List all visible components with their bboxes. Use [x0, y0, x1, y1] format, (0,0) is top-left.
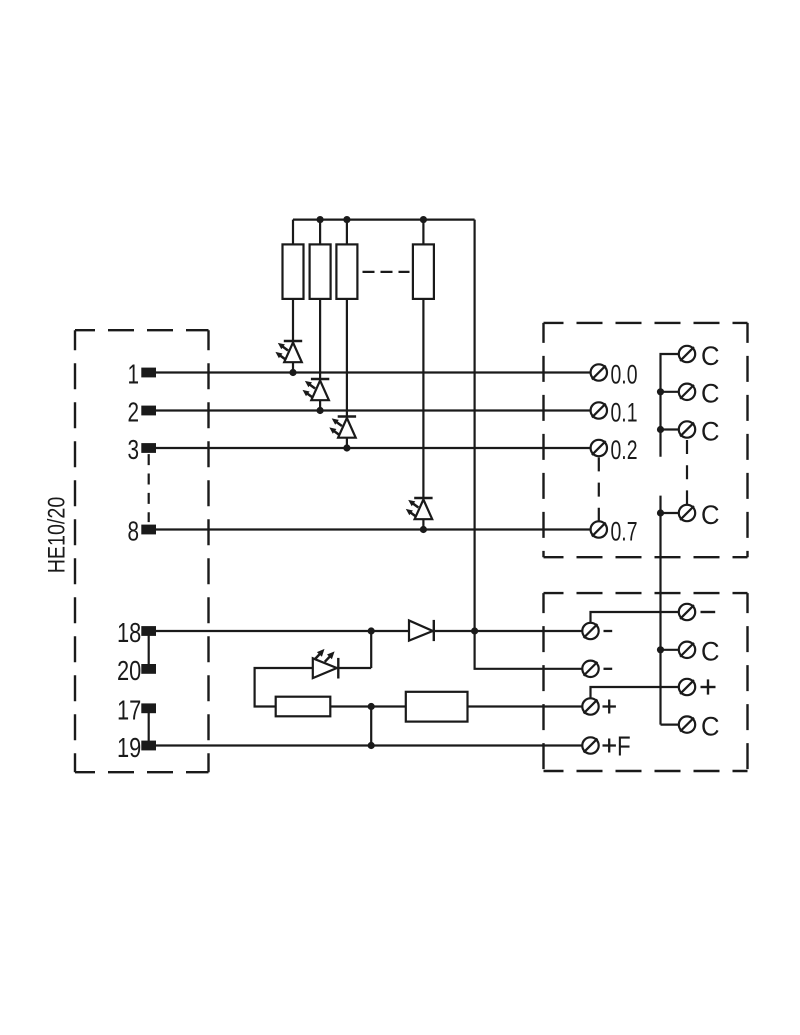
- svg-text:0.2: 0.2: [611, 435, 638, 465]
- wire rail to C2: [661, 391, 679, 393]
- terminal C1: [679, 346, 695, 362]
- node rail-C5 junction: [657, 646, 664, 653]
- node LED branch junction: [368, 627, 375, 634]
- svg-text:C: C: [701, 378, 720, 409]
- terminal 0.0: [591, 364, 607, 380]
- svg-text:0.1: 0.1: [611, 397, 638, 427]
- wire LED anode elbow: [255, 668, 313, 707]
- connector HE10/20 box: [75, 330, 209, 772]
- terminal 0.1: [591, 402, 607, 418]
- node pin19 wire junction: [368, 742, 375, 749]
- resistor R2: [310, 244, 331, 299]
- wire C rail upper segment: [661, 354, 679, 457]
- wire pin8 to terminal 0.7: [156, 528, 591, 530]
- wire pin2 to terminal 0.1: [156, 409, 591, 411]
- wire R1 to LED1: [292, 299, 294, 342]
- pin 2: [141, 406, 156, 416]
- LED V2 on input 2: [311, 378, 329, 380]
- fuse F1: [406, 692, 468, 722]
- wire pin18 to terminal minus: [156, 630, 582, 632]
- dashed continuation between R3 and R4: [363, 271, 410, 273]
- wire rail to C4: [661, 512, 679, 514]
- LED V3 on input 3: [338, 415, 356, 417]
- pin 3: [141, 443, 156, 453]
- wire R4 to LED4: [422, 299, 424, 499]
- terminal C4: [679, 505, 695, 521]
- wire resistor to fuse to terminal plus: [330, 705, 582, 707]
- label minus1: [604, 630, 613, 632]
- pin 1: [141, 368, 156, 378]
- svg-text:HE10/20: HE10/20: [43, 497, 70, 574]
- wire LED cathode to junction: [338, 667, 371, 669]
- wire pin3 to terminal 0.2: [156, 447, 591, 449]
- wire LED branch vertical: [370, 631, 372, 668]
- wire bus to resistor R2: [319, 220, 321, 245]
- svg-text:0.7: 0.7: [611, 516, 638, 546]
- wire rail to C5: [661, 649, 679, 651]
- terminal block outputs box: [544, 323, 748, 557]
- wire junction to pin19 wire: [370, 707, 372, 746]
- node rail-C4 junction: [657, 509, 664, 516]
- node LED1 junction: [289, 369, 296, 376]
- resistor R3: [336, 244, 357, 299]
- wire R3 to LED3: [346, 299, 348, 417]
- pin 20: [141, 664, 156, 674]
- terminal C5: [679, 642, 695, 658]
- svg-text:19: 19: [117, 732, 141, 763]
- terminal block power box: [544, 593, 748, 771]
- node rail-C3 junction: [657, 426, 664, 433]
- svg-text:1: 1: [127, 360, 139, 391]
- LED V6 green: [313, 667, 337, 669]
- svg-text:17: 17: [117, 695, 141, 726]
- wire bus to resistor R4: [422, 220, 424, 245]
- label plusF: [603, 744, 616, 746]
- wire pin1 to terminal 0.0: [156, 371, 591, 373]
- dashed continuation terminals C3-C4: [686, 440, 688, 504]
- terminal minus2: [582, 661, 598, 677]
- svg-text:3: 3: [127, 435, 139, 466]
- node LED4 junction: [420, 526, 427, 533]
- wire pin17-pin19 link: [148, 708, 150, 745]
- svg-text:0.0: 0.0: [611, 359, 638, 389]
- wire plus elbow to C-plus: [591, 687, 679, 698]
- pin 19: [141, 741, 156, 751]
- terminal C-minus: [679, 604, 695, 620]
- wire minus elbow to C-minus: [591, 612, 679, 623]
- svg-text:C: C: [701, 340, 720, 371]
- label C-minus: [701, 611, 716, 613]
- wire C rail lower segment: [659, 496, 661, 725]
- svg-text:2: 2: [127, 398, 139, 429]
- node bus-R3 junction: [343, 216, 350, 223]
- wire minus rail vertical: [474, 220, 476, 631]
- terminal C6: [679, 716, 695, 732]
- pin 18: [141, 626, 156, 636]
- node bus-R2 junction: [317, 216, 324, 223]
- terminal C3: [679, 421, 695, 437]
- svg-text:20: 20: [117, 656, 141, 687]
- terminal 0.2: [591, 440, 607, 456]
- wire top supply bus: [293, 219, 475, 221]
- label minus2: [604, 668, 613, 670]
- svg-text:C: C: [701, 499, 720, 530]
- wire pin18-pin20 link: [148, 631, 150, 669]
- resistor R1: [283, 244, 304, 299]
- wire minus rail to terminal minus2: [475, 631, 583, 669]
- pin 17: [141, 703, 156, 713]
- node LED3 junction: [343, 444, 350, 451]
- wire R2 to LED2: [319, 299, 321, 380]
- node bus-R4 junction: [420, 216, 427, 223]
- LED V1 on input 1: [284, 340, 302, 342]
- node rail-C2 junction: [657, 388, 664, 395]
- svg-text:C: C: [701, 636, 720, 667]
- LED V4 on input 8: [414, 497, 432, 499]
- terminal C-plus: [679, 679, 695, 695]
- svg-text:C: C: [701, 416, 720, 447]
- wire pin19 to terminal plusF: [156, 744, 582, 746]
- resistor R4: [413, 244, 434, 299]
- terminal 0.7: [591, 521, 607, 537]
- svg-text:8: 8: [127, 517, 139, 548]
- dashed continuation terminals 0.2-0.7: [598, 457, 600, 520]
- pin 8: [141, 525, 156, 535]
- wire bus to resistor R1: [292, 220, 294, 245]
- wire rail to C3: [661, 428, 679, 430]
- terminal plus: [582, 698, 598, 714]
- label plus: [603, 705, 616, 707]
- terminal minus input: [582, 623, 598, 639]
- diode V5: [409, 621, 433, 641]
- wire bus to resistor R3: [346, 220, 348, 245]
- dashed continuation pins 3-8: [148, 454, 150, 522]
- wire rail elbow to C6: [661, 723, 679, 725]
- node diode output junction: [471, 627, 478, 634]
- label C-plus: [701, 686, 716, 688]
- resistor R5: [276, 697, 331, 717]
- svg-text:18: 18: [117, 618, 141, 649]
- svg-text:C: C: [701, 711, 720, 742]
- svg-text:F: F: [617, 731, 631, 762]
- node resistor-fuse junction: [368, 703, 375, 710]
- terminal plusF: [582, 737, 598, 753]
- node LED2 junction: [317, 407, 324, 414]
- terminal C2: [679, 384, 695, 400]
